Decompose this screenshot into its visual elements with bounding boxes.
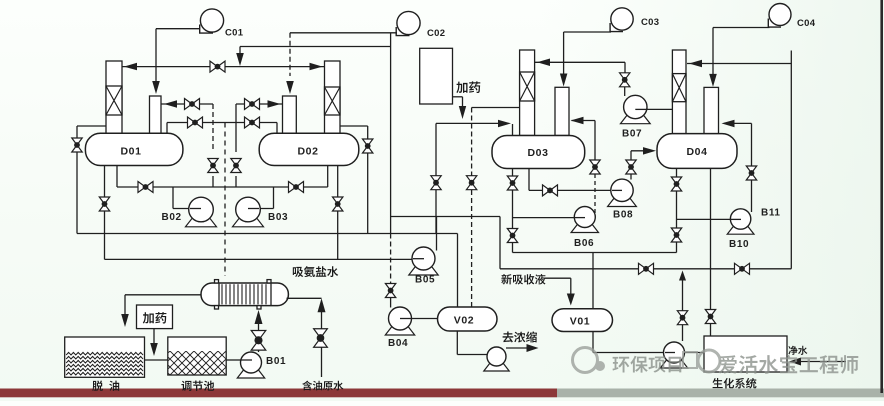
dosing box	[420, 48, 453, 104]
arrow into N1	[152, 81, 160, 94]
wire B08 stub	[612, 189, 622, 191]
arrow into T4	[689, 60, 702, 67]
svg-text:B07: B07	[622, 129, 642, 140]
label xi-an-yan-shui	[293, 266, 338, 277]
valve above B01	[251, 331, 266, 351]
wire B09 discharge	[685, 352, 705, 354]
pump B05	[409, 266, 438, 276]
wire brine header	[105, 258, 413, 260]
svg-text:V02: V02	[454, 315, 474, 327]
svg-text:D03: D03	[527, 147, 548, 159]
wire D03 drain	[512, 169, 514, 177]
wire B02 stub	[190, 208, 201, 210]
valve B06 discharge	[590, 160, 600, 174]
valve header2 right	[735, 263, 750, 274]
valve on x682	[677, 311, 687, 325]
arrow into T3	[537, 59, 550, 67]
pump B06	[571, 223, 598, 233]
wire exchanger to tank	[125, 294, 201, 296]
arrow raw water up	[318, 298, 326, 312]
wire B06 discharge	[594, 121, 596, 161]
arrow into N2	[286, 81, 294, 94]
regulating tank	[168, 337, 226, 375]
valve on x236	[231, 159, 241, 173]
label sheng-hua-xi-tong	[712, 378, 756, 389]
svg-text:B11: B11	[761, 208, 781, 219]
arrow B06 into N3	[571, 117, 584, 124]
wire D02 to pump header	[327, 166, 329, 188]
wire C04 suction	[713, 27, 770, 29]
valve pump header left	[138, 182, 153, 193]
svg-text:B03: B03	[268, 212, 288, 223]
arrow into T1	[124, 63, 137, 71]
wire B08 discharge	[630, 174, 632, 180]
background tint right side	[540, 0, 884, 401]
svg-text:C03: C03	[641, 17, 659, 28]
wire C02 discharge drop	[390, 33, 392, 234]
bio tank	[704, 336, 787, 372]
wire B07 suction from T4	[647, 108, 672, 110]
wire lower tie	[167, 122, 277, 124]
compressor C03	[610, 23, 623, 32]
valve D04 drain upper	[671, 177, 681, 191]
wire upper tie right	[236, 103, 283, 105]
dosing box lower	[137, 305, 173, 329]
valve lower tie right	[245, 117, 260, 128]
arrow feed into D03	[498, 120, 511, 128]
arrow into N1 side	[164, 100, 177, 108]
valve on x213	[208, 159, 218, 173]
svg-text:D02: D02	[297, 146, 318, 158]
label jia-yao lower	[143, 312, 167, 324]
packing X of T2	[325, 87, 341, 115]
arrow dosing into D03 line	[459, 106, 466, 119]
valve B08 discharge	[626, 160, 636, 174]
heat exchanger shell	[201, 283, 288, 306]
wire D03 overhead	[535, 61, 625, 63]
compressor C04	[768, 19, 781, 28]
svg-text:B04: B04	[388, 338, 408, 349]
wire x436 drop	[435, 123, 437, 233]
wire D01 to pump header	[116, 166, 118, 188]
arrow onto crossover	[236, 53, 244, 66]
wire enclosure right edge	[367, 126, 369, 234]
svg-text:B10: B10	[729, 239, 749, 250]
wire top crossover line	[122, 66, 325, 68]
wire B10 suction	[677, 218, 731, 220]
wire D04 drain mid	[710, 168, 712, 268]
heat exchanger nozzles	[215, 280, 219, 283]
pump B02	[186, 217, 217, 227]
heat exchanger tubes	[222, 284, 266, 304]
arrow into V01	[567, 294, 575, 306]
column T2 of D02	[325, 61, 341, 133]
wire drop to B09	[682, 276, 684, 341]
column N3 of D03	[555, 87, 569, 135]
wire pump header	[117, 186, 328, 188]
arrow into N3 top	[560, 74, 568, 87]
packing X of T1	[106, 86, 122, 115]
vessel V02	[438, 307, 498, 331]
wire mid header y=216.5	[391, 216, 500, 218]
label qu-nong-suo	[503, 331, 537, 342]
oil tank	[65, 337, 145, 377]
wire B10 stub	[731, 218, 741, 220]
watermark	[573, 348, 859, 374]
wire x500 drop	[499, 217, 501, 269]
wire C02 suction	[290, 32, 397, 34]
pump below V02	[484, 362, 509, 372]
column T1 of D01	[106, 61, 122, 133]
wire header2	[500, 268, 791, 270]
pump B01	[237, 369, 264, 379]
column T3 of D03	[520, 50, 535, 136]
wire B03 discharge	[248, 208, 274, 210]
svg-text:V01: V01	[570, 316, 590, 328]
arrow up onto header2	[679, 271, 686, 281]
valve above B04	[385, 284, 395, 298]
wire B05 riser	[436, 217, 438, 251]
valve header2 left	[639, 263, 654, 274]
wire header1	[513, 252, 677, 254]
svg-text:B02: B02	[162, 212, 182, 223]
vessel D01	[85, 133, 182, 165]
wire center dashed divider	[224, 123, 226, 277]
wire C03 suction	[564, 31, 611, 33]
column N4 of D04	[704, 87, 719, 133]
vessel D03	[492, 136, 585, 169]
wire D04 drain left	[676, 168, 678, 252]
wire B01 discharge	[258, 350, 260, 352]
svg-text:C04: C04	[797, 18, 816, 29]
wire dosing lower arrow	[153, 329, 155, 348]
wire upper tie left	[161, 103, 213, 105]
valve on top crossover	[210, 61, 225, 72]
vessel D04	[657, 134, 737, 169]
wire B08 suction	[528, 169, 530, 191]
right border frame	[880, 0, 883, 393]
wire right long vertical	[790, 64, 792, 269]
pump B07	[620, 114, 650, 124]
wire C01 suction	[156, 28, 200, 30]
wire drop x213	[212, 104, 214, 152]
compressor C02	[396, 27, 409, 36]
wire drop to biobox	[710, 269, 712, 336]
wire D04 overhead	[687, 63, 791, 65]
pump B04	[385, 326, 414, 336]
svg-text:D01: D01	[120, 146, 141, 158]
wire concentrate line	[506, 347, 530, 349]
wire x593 drop to V01	[592, 253, 594, 309]
svg-text:C02: C02	[427, 28, 445, 39]
wire B06 stub	[575, 217, 585, 219]
valve B08 suction	[543, 185, 558, 196]
wire B04 stub	[400, 318, 412, 320]
wire drop x236	[235, 104, 237, 152]
wire B10 discharge	[751, 180, 753, 212]
wire feed to D03	[436, 122, 502, 124]
svg-text:B01: B01	[266, 356, 286, 367]
arrow into T2	[310, 63, 323, 71]
wire C04 drop to N4	[712, 28, 714, 80]
valve on x436	[431, 176, 441, 190]
arrow B08 into D04	[643, 147, 656, 155]
wire exchanger outlet	[287, 297, 322, 299]
wire B07 stub	[635, 108, 648, 110]
wire clean water line	[797, 361, 846, 363]
wire branch from C02 line	[240, 46, 391, 48]
wire enclosure top y=126	[77, 125, 106, 127]
vessel D02	[259, 133, 359, 165]
valve on left enclosure edge	[72, 138, 82, 152]
wire raw water riser	[321, 305, 323, 329]
valve on x710	[705, 310, 715, 324]
svg-text:B08: B08	[613, 210, 633, 221]
wire B01 stub	[241, 359, 252, 361]
wire B05 stub	[413, 258, 424, 260]
svg-text:B06: B06	[574, 238, 594, 249]
packing X of T4	[672, 74, 686, 102]
valve upper tie left	[185, 99, 200, 110]
wire enclosure bottom to V02	[77, 233, 458, 235]
nozzle column N2 of D02	[283, 96, 297, 133]
arrow B10 into N4	[722, 120, 735, 128]
wire dashed drop to N2	[289, 33, 291, 76]
svg-text:D04: D04	[686, 146, 707, 158]
valve on D01 drain	[99, 197, 109, 211]
label tiao-jie-chi	[181, 381, 214, 392]
wire dosing connector	[453, 96, 463, 98]
arrow into oil tank	[121, 314, 129, 327]
label jing-shui	[788, 346, 807, 355]
column T4 of D04	[672, 50, 686, 134]
wire new liquid feed	[545, 277, 571, 279]
wire C03 drop to N3	[563, 32, 565, 79]
wire tank link	[145, 359, 168, 361]
pump B10	[727, 225, 754, 235]
wire B07 discharge riser	[624, 62, 626, 73]
wire B03 stub	[248, 208, 259, 210]
pump B08	[608, 197, 637, 207]
valve raw water	[314, 329, 328, 347]
wire x471 line	[472, 107, 535, 109]
compressor C01	[200, 25, 213, 34]
valve above B07	[620, 73, 630, 87]
wire V02 bottom	[456, 331, 458, 355]
svg-text:B05: B05	[415, 275, 435, 286]
valve D04 drain lower	[671, 228, 681, 242]
valve lower tie left	[188, 117, 203, 128]
wire B02 suction	[172, 187, 174, 209]
bottom color bar	[0, 389, 557, 398]
wire B06 suction	[513, 217, 575, 219]
arrow dosing into link	[150, 343, 158, 356]
valve B10 discharge	[746, 166, 756, 180]
valve on D02 drain	[333, 197, 343, 211]
pump B09	[660, 359, 687, 369]
pump B03	[233, 217, 264, 227]
arrow into N2 side	[268, 100, 281, 108]
vessel V01	[552, 309, 613, 332]
label jia-yao upper	[456, 81, 480, 93]
label tuo-you	[92, 381, 119, 392]
wire B09 stub	[665, 352, 675, 354]
valve pump header right	[289, 182, 304, 193]
wire enclosure left edge	[76, 126, 78, 234]
valve D03 drain lower	[507, 229, 517, 243]
arrow clean water	[789, 358, 801, 366]
valve on right enclosure edge	[363, 139, 373, 153]
wire B04 discharge to V02	[412, 318, 438, 320]
arrow qu-nong-suo	[527, 344, 539, 352]
nozzle column N1 of D01	[150, 96, 162, 133]
label han-you-yuan-shui	[302, 381, 343, 391]
arrow into N4 top	[709, 74, 717, 87]
valve upper tie right	[245, 99, 260, 110]
svg-text:C01: C01	[225, 28, 244, 39]
arrow B01 into exchanger	[255, 310, 263, 324]
packing X of T3	[520, 72, 535, 101]
valve on x471	[466, 176, 476, 190]
wire D02 drain to brine header	[337, 166, 339, 260]
label xin-xi-shou-ye	[501, 274, 545, 285]
wire D01 drain to brine header	[104, 166, 106, 260]
wire V01 bottom	[592, 332, 594, 353]
valve D03 drain upper	[507, 176, 517, 190]
